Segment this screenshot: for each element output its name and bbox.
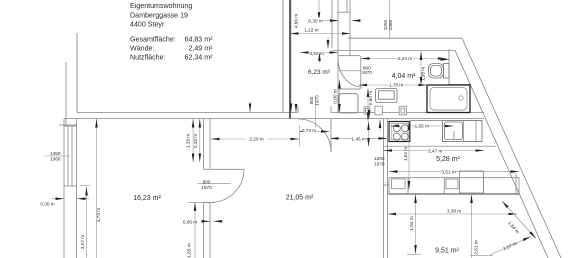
svg-text:Damberggasse 19: Damberggasse 19 (130, 11, 188, 19)
svg-text:Wände:: Wände: (130, 45, 154, 53)
svg-text:64,83 m²: 64,83 m² (185, 36, 214, 44)
svg-text:1360: 1360 (50, 156, 61, 161)
svg-text:Nutzfläche:: Nutzfläche: (130, 54, 166, 62)
svg-text:1050: 1050 (383, 19, 388, 30)
svg-text:1970: 1970 (315, 95, 320, 106)
svg-text:6,23 m²: 6,23 m² (308, 69, 331, 76)
svg-text:3,07 m: 3,07 m (80, 235, 85, 249)
svg-text:4,04 m²: 4,04 m² (392, 73, 416, 80)
svg-text:1200: 1200 (374, 156, 385, 161)
svg-text:3,38 m: 3,38 m (447, 209, 461, 214)
svg-text:4,73 m: 4,73 m (96, 208, 101, 222)
svg-text:3,51 m: 3,51 m (441, 169, 455, 174)
svg-text:Eigentumswohnung: Eigentumswohnung (130, 2, 192, 10)
svg-text:1360: 1360 (388, 19, 393, 30)
svg-text:0,73 m: 0,73 m (302, 128, 316, 133)
svg-text:1,45 m: 1,45 m (351, 137, 365, 142)
svg-text:2,49 m²: 2,49 m² (188, 45, 213, 53)
svg-text:2,20 m: 2,20 m (249, 137, 263, 142)
svg-text:9,51 m²: 9,51 m² (435, 247, 459, 254)
svg-text:1,54 m: 1,54 m (409, 216, 414, 230)
svg-text:2,24 m: 2,24 m (398, 56, 412, 61)
svg-text:1970: 1970 (201, 185, 212, 190)
svg-text:1,65 m: 1,65 m (186, 243, 191, 257)
svg-text:0,30 m: 0,30 m (308, 18, 322, 23)
svg-text:21,05 m²: 21,05 m² (286, 195, 314, 202)
svg-text:62,34 m²: 62,34 m² (185, 54, 214, 62)
svg-text:800: 800 (309, 96, 314, 104)
svg-text:1970: 1970 (374, 162, 385, 167)
svg-text:1,62 m: 1,62 m (403, 147, 408, 161)
svg-text:1450: 1450 (50, 151, 61, 156)
svg-text:0,30 m: 0,30 m (40, 201, 54, 206)
svg-text:2,61 m: 2,61 m (474, 240, 479, 254)
svg-text:Gesamtfläche:: Gesamtfläche: (130, 36, 176, 44)
svg-text:16,23 m²: 16,23 m² (133, 195, 161, 202)
svg-text:1,38 m: 1,38 m (420, 67, 425, 81)
svg-text:4400 Steyr: 4400 Steyr (130, 21, 165, 29)
svg-text:0,80 m: 0,80 m (333, 89, 338, 103)
svg-text:4,66 m: 4,66 m (294, 14, 299, 28)
svg-text:1,22 m: 1,22 m (304, 27, 318, 32)
svg-text:5,28 m²: 5,28 m² (436, 156, 460, 163)
svg-text:0,18 m: 0,18 m (193, 134, 198, 148)
svg-text:1970: 1970 (362, 70, 373, 75)
svg-text:2,47 m: 2,47 m (428, 148, 442, 153)
svg-text:1,28 m: 1,28 m (186, 134, 191, 148)
svg-text:0,60 m: 0,60 m (368, 91, 373, 105)
svg-text:0,52 m: 0,52 m (310, 51, 324, 56)
svg-text:0,06 m: 0,06 m (183, 219, 197, 224)
svg-text:1,78 m: 1,78 m (389, 82, 403, 87)
svg-text:1,65 m: 1,65 m (415, 123, 429, 128)
svg-text:800: 800 (203, 179, 211, 184)
